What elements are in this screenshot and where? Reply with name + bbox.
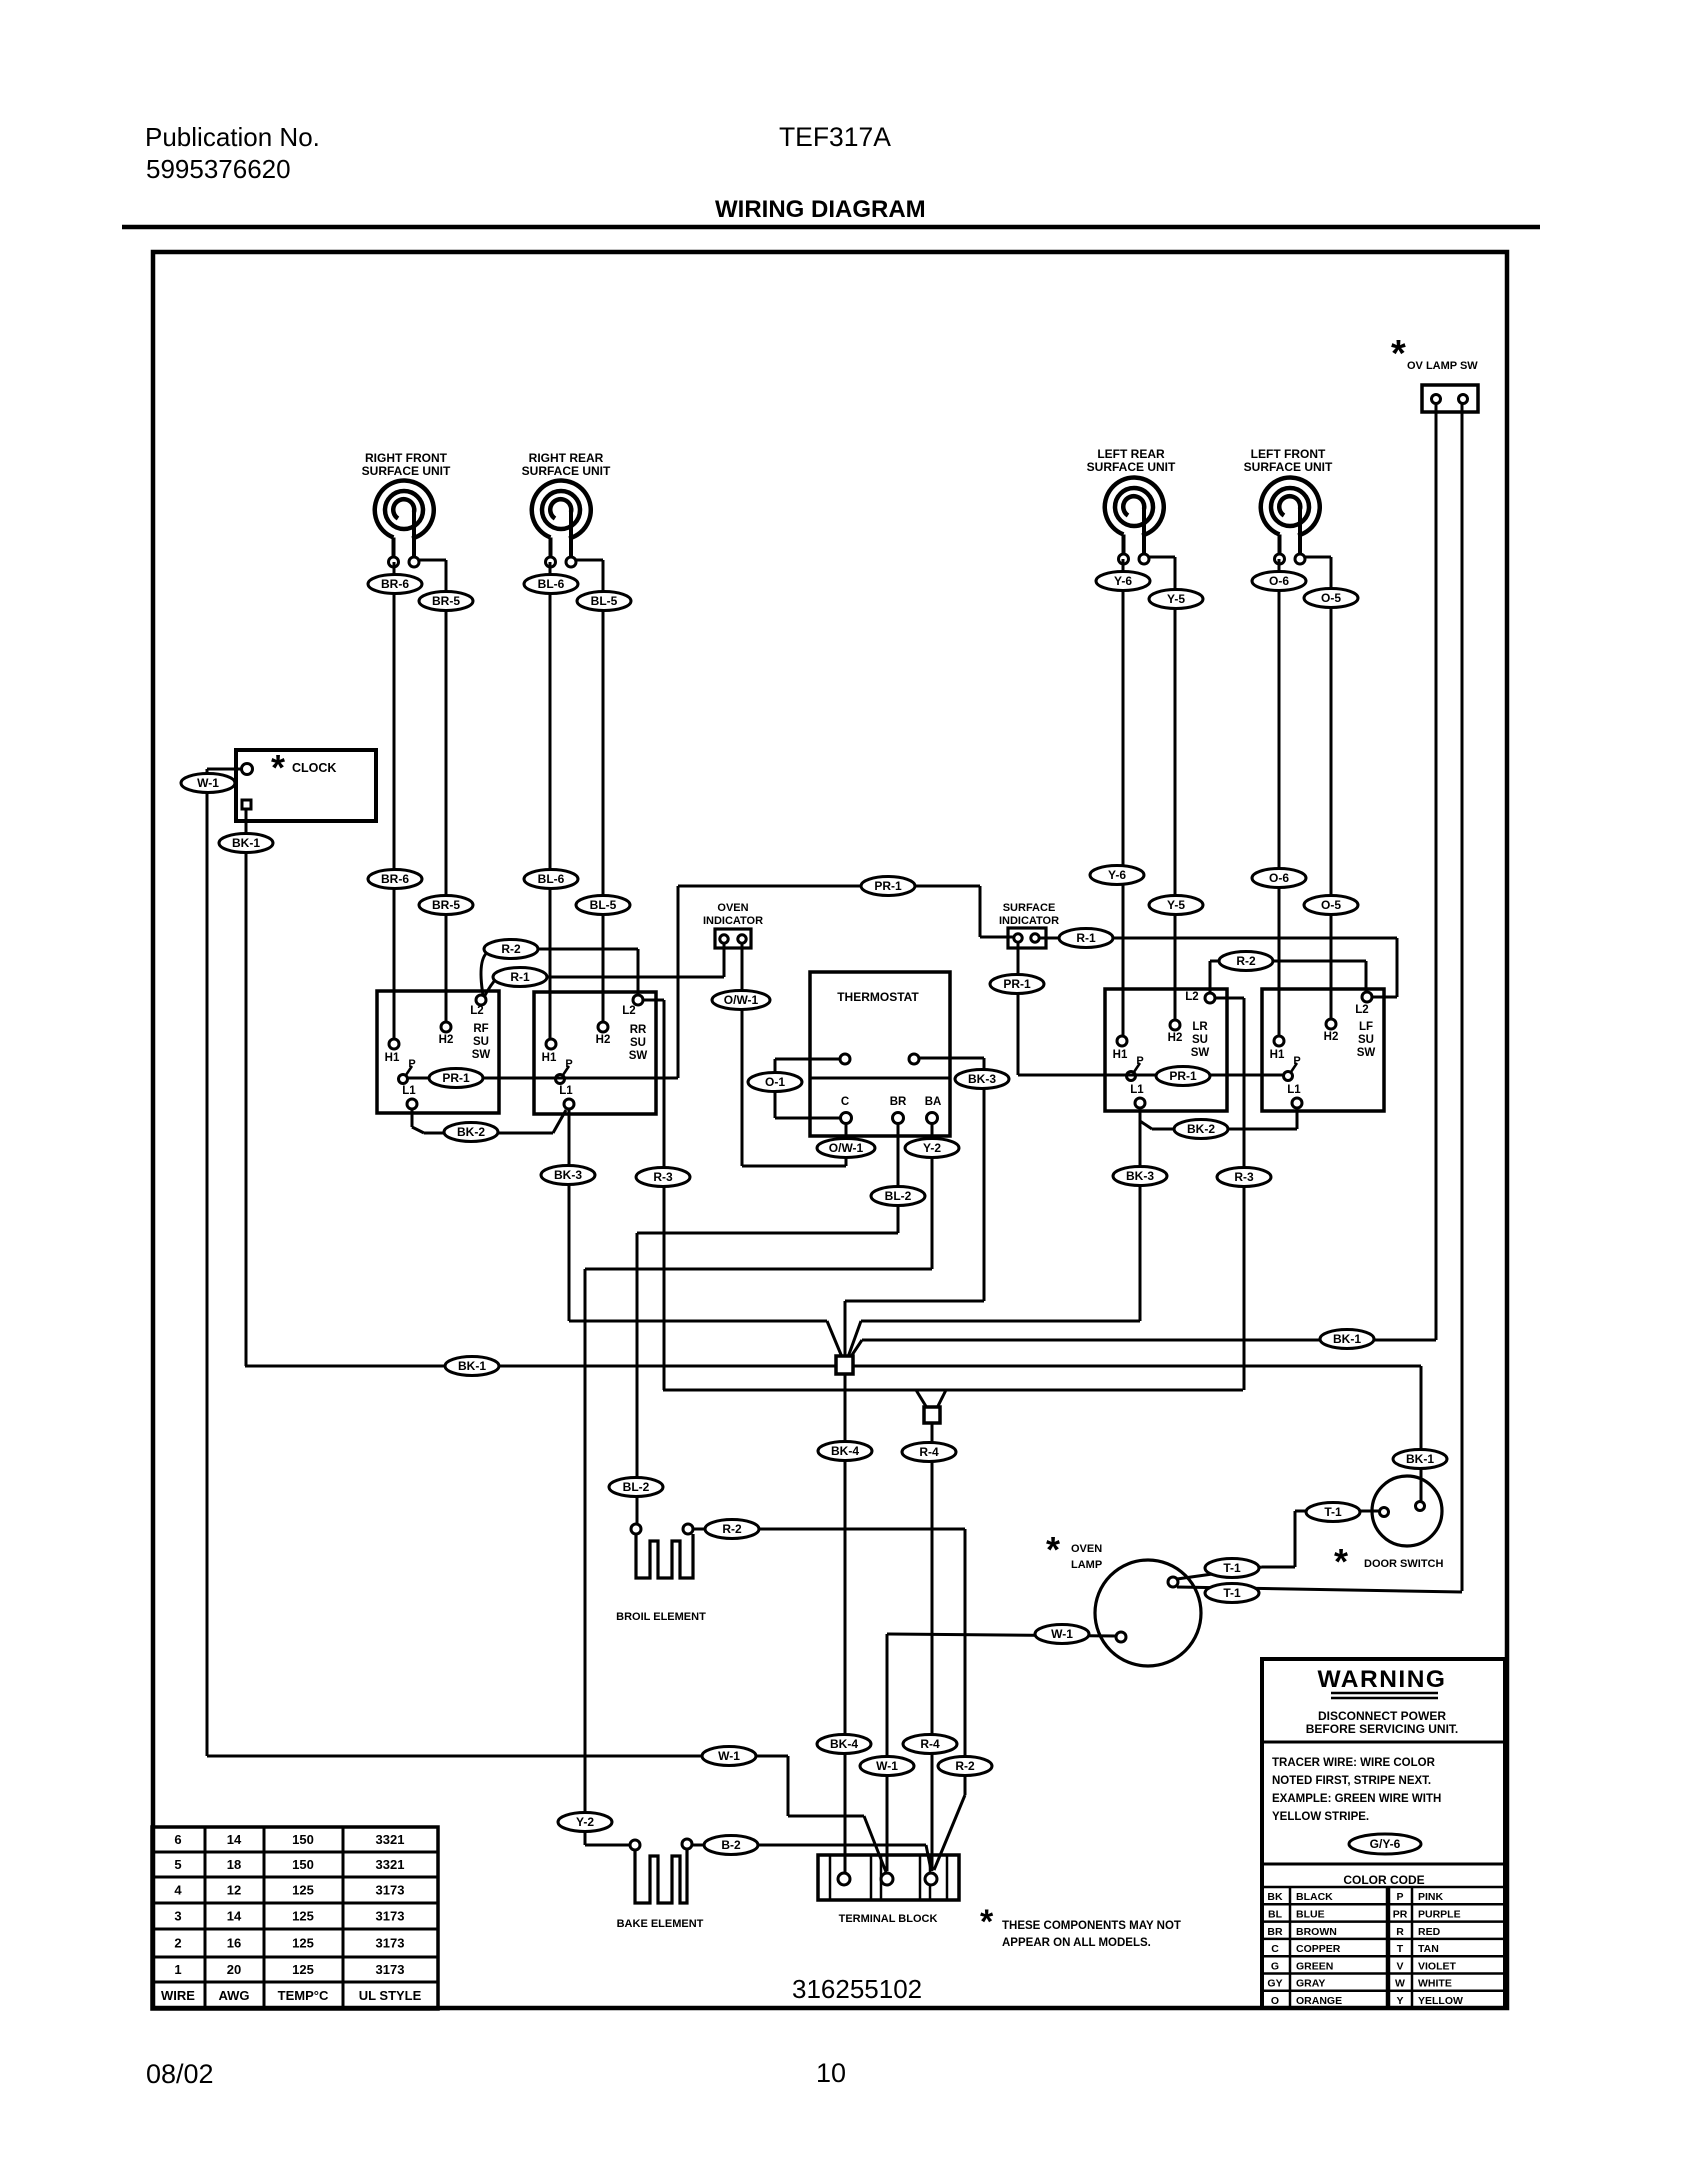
svg-text:BR-6: BR-6 (381, 577, 409, 591)
wire label BL-6 (524, 575, 578, 594)
wire label BL-5 (576, 896, 630, 915)
svg-text:BL-2: BL-2 (623, 1480, 650, 1494)
wire W-1 vertical (206, 769, 209, 1756)
wire label BR-5 (419, 592, 473, 611)
svg-text:H2: H2 (1168, 1032, 1183, 1044)
svg-text:C: C (1271, 1943, 1279, 1955)
svg-text:5: 5 (174, 1857, 181, 1872)
svg-text:R-2: R-2 (955, 1759, 975, 1773)
svg-text:COLOR CODE: COLOR CODE (1343, 1873, 1424, 1887)
left rear surface unit terminal 2 (1139, 554, 1149, 564)
svg-text:BK-4: BK-4 (830, 1737, 858, 1751)
wire W-1 diagonal to terminal block (864, 1816, 886, 1872)
RRSU L1 terminal (564, 1099, 574, 1109)
svg-text:2: 2 (174, 1936, 181, 1951)
wire label W-1 (860, 1757, 914, 1776)
svg-text:3: 3 (174, 1909, 181, 1924)
svg-text:WHITE: WHITE (1418, 1978, 1452, 1990)
clock terminal 2 (242, 800, 251, 809)
wire R-2 broil to terminal block (694, 1528, 965, 1531)
wire T-1 lamp to ov lamp sw (1177, 1587, 1462, 1592)
svg-text:B-2: B-2 (721, 1838, 741, 1852)
wire R-3 vertical right (1243, 998, 1246, 1390)
wire label BR-6 (368, 870, 422, 889)
wire label R-4 (902, 1443, 956, 1462)
svg-text:12: 12 (227, 1883, 241, 1898)
svg-text:BLUE: BLUE (1296, 1909, 1325, 1921)
svg-text:3173: 3173 (376, 1936, 405, 1951)
LFSU H1 terminal (1274, 1036, 1284, 1046)
svg-text:SW: SW (1191, 1047, 1210, 1059)
wire label BR-6 (368, 575, 422, 594)
svg-text:BL-2: BL-2 (885, 1189, 912, 1203)
wire R-1 surface indicator to LF L2 (1040, 937, 1397, 940)
wire label BK-4 (818, 1442, 872, 1461)
terminal block terminal 3 (925, 1873, 937, 1885)
wire label PR-1 (1156, 1067, 1210, 1086)
svg-text:R-2: R-2 (722, 1522, 742, 1536)
svg-text:GY: GY (1267, 1978, 1282, 1990)
wire label T-1 (1205, 1584, 1259, 1603)
wire label BK-3 (955, 1070, 1009, 1089)
svg-text:R: R (1396, 1926, 1404, 1938)
wire label R-2 (1219, 952, 1273, 971)
terminal block terminal 1 (838, 1873, 850, 1885)
svg-text:P: P (1396, 1891, 1403, 1903)
wire label W-1 (181, 774, 235, 793)
svg-text:H1: H1 (385, 1052, 400, 1064)
svg-text:BK-3: BK-3 (968, 1072, 996, 1086)
wire BL-2 down to broil element (636, 1233, 639, 1524)
wire BK-2 LR L1 to LF L1 (1152, 1128, 1297, 1131)
svg-text:*: * (1391, 333, 1406, 375)
svg-text:CLOCK: CLOCK (292, 761, 336, 775)
wire R-3 from LR L2 (1216, 997, 1244, 1000)
thermostat terminal BA (927, 1113, 938, 1124)
svg-text:O-6: O-6 (1269, 871, 1289, 885)
svg-text:L2: L2 (1185, 991, 1198, 1003)
wire label BL-6 (524, 870, 578, 889)
LRSU H1 terminal (1117, 1036, 1127, 1046)
wire Y-5 jog (1149, 556, 1175, 559)
RFSU H1 terminal (389, 1039, 399, 1049)
svg-text:316255102: 316255102 (792, 1974, 922, 2004)
wire O/W-1 horizontal (742, 1165, 846, 1168)
svg-text:3321: 3321 (376, 1832, 405, 1847)
bake element (635, 1849, 687, 1903)
wire label R-1 (493, 968, 547, 987)
svg-text:SU: SU (1358, 1034, 1374, 1046)
svg-text:G: G (1271, 1960, 1279, 1972)
right front surface unit terminal 1 (389, 557, 399, 567)
wire Y-2 to bake terminal (585, 1844, 629, 1847)
svg-text:SURFACE UNIT: SURFACE UNIT (1244, 460, 1333, 474)
svg-text:V: V (1396, 1960, 1403, 1972)
wire R-2 LR L2 to LF L2 (1210, 960, 1366, 963)
svg-text:OVEN: OVEN (1071, 1543, 1102, 1555)
wire label W-1 (702, 1747, 756, 1766)
wire label W-1 (1035, 1625, 1089, 1644)
svg-text:TERMINAL BLOCK: TERMINAL BLOCK (839, 1913, 938, 1925)
svg-text:150: 150 (292, 1857, 314, 1872)
wire R-3 from RR L2 (643, 999, 664, 1002)
wire label BK-3 (541, 1166, 595, 1185)
wire BK-2 LR L1 (1139, 1108, 1142, 1121)
thermostat top-right terminal (909, 1054, 919, 1064)
svg-text:16: 16 (227, 1936, 241, 1951)
wire label Y-2 (558, 1813, 612, 1832)
svg-text:L2: L2 (622, 1005, 635, 1017)
svg-text:O: O (1271, 1995, 1279, 2007)
door switch (1372, 1476, 1442, 1546)
svg-text:*: * (980, 1903, 994, 1941)
svg-text:SU: SU (473, 1036, 489, 1048)
warning divider (1262, 1741, 1505, 1744)
wire label R-3 (1217, 1168, 1271, 1187)
svg-text:BK-1: BK-1 (232, 836, 260, 850)
clock terminal 1 (242, 764, 253, 775)
wire diagonal into junction 2 (937, 1390, 946, 1408)
wire BK-1 diagonal into junction (850, 1340, 862, 1358)
wire BK-1 down to door switch (1420, 1366, 1423, 1501)
wire label T-1 (1205, 1559, 1259, 1578)
wire O-6 left front unit to H1 (1278, 559, 1281, 1036)
example wire label G/Y-6 (1349, 1834, 1421, 1854)
svg-text:BK-1: BK-1 (1406, 1452, 1434, 1466)
wire O-5 left front unit to H2 (1330, 557, 1333, 1019)
oven indicator box (715, 929, 751, 948)
right rear surface unit terminal 1 (546, 557, 556, 567)
wire PR-1 horizontal (678, 885, 980, 888)
svg-text:R-2: R-2 (501, 942, 521, 956)
wire BK-3 diagonal into junction (827, 1321, 842, 1357)
wire R-2 diagonal to terminal (934, 1795, 965, 1870)
svg-text:W-1: W-1 (1051, 1627, 1073, 1641)
wire BL-5 jog (576, 559, 603, 562)
left rear surface unit terminal 1 (1119, 554, 1129, 564)
LRSU P terminal (1127, 1072, 1136, 1081)
svg-text:BR: BR (890, 1096, 907, 1108)
wire Y-2 horizontal (585, 1268, 932, 1271)
wire BK-3 vertical (983, 1058, 986, 1301)
svg-text:LEFT FRONT: LEFT FRONT (1251, 447, 1326, 461)
wire label BK-1 (1393, 1450, 1447, 1469)
svg-text:SW: SW (629, 1050, 648, 1062)
wire label BK-3 (1113, 1167, 1167, 1186)
wire PR-1 P line left pair (408, 1077, 678, 1080)
surface unit coil left front surface unit (1261, 478, 1320, 554)
wire BK-3 thermostat right (919, 1057, 984, 1060)
thermostat terminal BR (893, 1113, 904, 1124)
thermostat terminal C (841, 1113, 852, 1124)
left front surface unit terminal 2 (1295, 554, 1305, 564)
svg-text:OVEN: OVEN (717, 902, 748, 914)
terminal block (818, 1855, 959, 1900)
junction node square 2 (924, 1407, 940, 1423)
wire Y-2 from BA terminal (931, 1124, 934, 1269)
svg-text:BL-5: BL-5 (590, 898, 617, 912)
svg-text:SURFACE UNIT: SURFACE UNIT (362, 464, 451, 478)
svg-text:APPEAR ON ALL MODELS.: APPEAR ON ALL MODELS. (1002, 1937, 1151, 1949)
svg-text:L1: L1 (402, 1085, 416, 1097)
svg-text:BK-4: BK-4 (831, 1444, 859, 1458)
RFSU H2 terminal (441, 1022, 451, 1032)
wire label O/W-1 (712, 991, 770, 1010)
svg-text:R-3: R-3 (653, 1170, 673, 1184)
svg-text:W: W (1395, 1978, 1405, 1990)
RFSU P terminal (399, 1075, 408, 1084)
svg-text:BL-5: BL-5 (591, 594, 618, 608)
wire O/W-1 up to C (845, 1124, 848, 1166)
svg-text:SURFACE: SURFACE (1003, 902, 1056, 914)
svg-text:4: 4 (174, 1883, 182, 1898)
wire R-4 junction to terminal block (931, 1423, 934, 1871)
svg-text:THESE COMPONENTS MAY NOT: THESE COMPONENTS MAY NOT (1002, 1920, 1181, 1932)
svg-text:ORANGE: ORANGE (1296, 1995, 1342, 2007)
wire W-1 from clock (207, 768, 242, 771)
svg-text:SW: SW (1357, 1047, 1376, 1059)
wire label BL-2 (609, 1478, 663, 1497)
svg-text:LF: LF (1359, 1021, 1373, 1033)
svg-text:W-1: W-1 (718, 1749, 740, 1763)
svg-text:Y-2: Y-2 (923, 1141, 941, 1155)
broil element (636, 1534, 693, 1578)
switch box LRSU SU SW (1105, 989, 1227, 1111)
svg-text:Publication No.: Publication No. (145, 122, 320, 152)
svg-text:H2: H2 (596, 1034, 611, 1046)
wire label Y-5 (1149, 896, 1203, 915)
wire BK-1 ov lamp sw vertical (1435, 404, 1438, 1340)
svg-text:3173: 3173 (376, 1962, 405, 1977)
svg-text:UL STYLE: UL STYLE (359, 1988, 422, 2003)
wire label R-2 (705, 1520, 759, 1539)
svg-text:Y-2: Y-2 (576, 1815, 594, 1829)
svg-text:3173: 3173 (376, 1883, 405, 1898)
svg-text:W-1: W-1 (197, 776, 219, 790)
wire BK-3 to junction (569, 1320, 827, 1323)
wire B-2 bake to terminal block (693, 1844, 926, 1847)
svg-text:BROWN: BROWN (1296, 1926, 1337, 1938)
wire label R-1 (1059, 929, 1113, 948)
wire PR-1 down to P line (677, 886, 680, 1078)
wire Y-2 down to bake element (584, 1269, 587, 1845)
svg-text:T-1: T-1 (1223, 1586, 1241, 1600)
bake element right terminal (682, 1839, 692, 1849)
svg-text:L2: L2 (470, 1005, 483, 1017)
svg-text:O-5: O-5 (1321, 591, 1341, 605)
svg-text:L2: L2 (1355, 1004, 1368, 1016)
svg-text:*: * (1334, 1541, 1348, 1582)
svg-text:L1: L1 (559, 1085, 573, 1097)
svg-text:1: 1 (174, 1962, 181, 1977)
svg-text:BR-6: BR-6 (381, 872, 409, 886)
broil element left terminal (631, 1524, 641, 1534)
svg-text:WIRE: WIRE (161, 1988, 195, 2003)
wire BK-3 diagonal into junction (848, 1321, 861, 1357)
svg-text:COPPER: COPPER (1296, 1943, 1341, 1955)
door switch left terminal (1380, 1508, 1389, 1517)
svg-text:R-4: R-4 (919, 1445, 939, 1459)
wire PR-1 P line right pair (1018, 1074, 1284, 1077)
wire PR-1 below surface indicator (1017, 943, 1020, 1075)
oven indicator terminal 1 (720, 935, 728, 943)
wire Y-6 left rear unit to H1 (1122, 559, 1125, 1036)
wire BK-3 to junction (861, 1320, 1140, 1323)
wire O-5 jog (1305, 556, 1331, 559)
svg-text:INDICATOR: INDICATOR (999, 915, 1059, 927)
svg-text:T-1: T-1 (1324, 1505, 1342, 1519)
wire label BK-4 (817, 1735, 871, 1754)
svg-text:SURFACE UNIT: SURFACE UNIT (522, 464, 611, 478)
svg-text:BL: BL (1268, 1909, 1283, 1921)
svg-text:BA: BA (925, 1096, 942, 1108)
wire R-2 RF L2 to RR L2 (538, 948, 638, 951)
LFSU P terminal (1284, 1072, 1293, 1081)
svg-text:10: 10 (816, 2058, 846, 2088)
svg-text:WIRING DIAGRAM: WIRING DIAGRAM (715, 196, 926, 223)
wire BK-2 RF L1 (411, 1109, 414, 1127)
svg-text:R-2: R-2 (1236, 954, 1256, 968)
svg-text:6: 6 (174, 1832, 181, 1847)
svg-text:RIGHT FRONT: RIGHT FRONT (365, 451, 448, 465)
wire BK-1 long horizontal left (245, 1365, 836, 1368)
ov lamp sw terminal 1 (1432, 395, 1441, 404)
surface indicator terminal 2 (1031, 934, 1039, 942)
wire BK-3 to junction top (845, 1300, 984, 1303)
wire R-1 to oven indicator (546, 976, 724, 979)
wire BL-5 right rear unit to H2 (602, 560, 605, 1022)
wire R-3 vertical left (663, 1000, 666, 1390)
wire BL-2 from BR terminal (897, 1124, 900, 1233)
svg-text:125: 125 (292, 1936, 314, 1951)
svg-text:BROIL ELEMENT: BROIL ELEMENT (616, 1611, 706, 1623)
wire label O-6 (1252, 572, 1306, 591)
wire BK-1 to ov lamp sw (862, 1339, 1436, 1342)
svg-text:BEFORE SERVICING UNIT.: BEFORE SERVICING UNIT. (1306, 1722, 1458, 1736)
switch box RFSU SU SW (377, 991, 499, 1113)
svg-text:TEF317A: TEF317A (779, 122, 891, 152)
wire label BR-5 (419, 896, 473, 915)
svg-text:BR-5: BR-5 (432, 594, 460, 608)
svg-text:P: P (565, 1058, 572, 1070)
svg-text:BK-2: BK-2 (457, 1125, 485, 1139)
ov lamp sw terminal 2 (1459, 395, 1468, 404)
RFSU L2 terminal (476, 995, 486, 1005)
RRSU P terminal (556, 1075, 565, 1084)
svg-text:O-6: O-6 (1269, 574, 1289, 588)
svg-text:RR: RR (630, 1024, 647, 1036)
wire PR-1 jog to surface indicator (980, 936, 1014, 939)
warning box (1262, 1659, 1505, 2008)
oven indicator terminal 2 (738, 935, 746, 943)
LFSU L2 terminal (1362, 992, 1372, 1002)
svg-text:*: * (271, 747, 285, 788)
LRSU H2 terminal (1170, 1020, 1180, 1030)
wire label BK-1 (445, 1357, 499, 1376)
color code divider (1262, 1863, 1505, 1866)
surface unit coil right rear surface unit (532, 481, 591, 557)
thermostat divider (810, 1077, 950, 1080)
wire BR-5 right front unit to H2 (445, 560, 448, 1022)
clock box (236, 750, 376, 821)
svg-text:LR: LR (1192, 1021, 1208, 1033)
wire label Y-5 (1149, 590, 1203, 609)
svg-text:PR-1: PR-1 (442, 1071, 470, 1085)
svg-text:*: * (1046, 1529, 1060, 1570)
wire BK-3 RR L1 down (568, 1109, 571, 1321)
wire label BL-2 (871, 1187, 925, 1206)
wire label O-5 (1304, 589, 1358, 608)
svg-text:TEMP°C: TEMP°C (278, 1988, 329, 2003)
RFSU L1 terminal (407, 1099, 417, 1109)
wire O-1 vertical (774, 1059, 777, 1118)
wire BK-1 from clock vertical (245, 809, 248, 1366)
oven lamp terminal 2 (1116, 1632, 1126, 1642)
svg-text:G/Y-6: G/Y-6 (1370, 1837, 1401, 1851)
svg-text:WARNING: WARNING (1318, 1666, 1447, 1693)
svg-text:PURPLE: PURPLE (1418, 1909, 1461, 1921)
wire R-2 LR L2 up (1209, 961, 1212, 993)
svg-text:PINK: PINK (1418, 1891, 1444, 1903)
svg-text:SW: SW (472, 1049, 491, 1061)
wire BL-6 right rear unit to H1 (549, 562, 552, 1039)
svg-text:Y: Y (1396, 1995, 1403, 2007)
wire label BK-2 (444, 1123, 498, 1142)
wire label BK-1 (1320, 1330, 1374, 1349)
svg-text:BK-3: BK-3 (554, 1168, 582, 1182)
wire label BL-5 (577, 592, 631, 611)
wire label R-3 (636, 1168, 690, 1187)
door switch right terminal (1416, 1502, 1425, 1511)
svg-text:H1: H1 (1270, 1049, 1285, 1061)
surface indicator terminal 1 (1014, 934, 1022, 942)
wire R-2 curve from RF L2 (481, 951, 489, 995)
wire W-1 oven lamp to terminal block (887, 1634, 1116, 1636)
surface indicator box (1008, 928, 1046, 948)
svg-text:BK-2: BK-2 (1187, 1122, 1215, 1136)
LRSU L1 terminal (1135, 1098, 1145, 1108)
wire Y-5 left rear unit to H2 (1174, 557, 1177, 1020)
wire label R-4 (903, 1735, 957, 1754)
switch box RRSU SU SW (534, 992, 656, 1114)
wire BR-5 jog (419, 559, 446, 562)
header rule (122, 225, 1540, 230)
left front surface unit terminal 1 (1275, 554, 1285, 564)
RRSU H1 terminal (546, 1039, 556, 1049)
svg-text:SURFACE UNIT: SURFACE UNIT (1087, 460, 1176, 474)
wire O/W-1 oven indicator down (741, 944, 744, 1166)
svg-text:Y-5: Y-5 (1167, 592, 1185, 606)
wire label O-1 (748, 1073, 802, 1092)
wire label BK-1 (219, 834, 273, 853)
svg-text:SU: SU (1192, 1034, 1208, 1046)
svg-text:YELLOW STRIPE.: YELLOW STRIPE. (1272, 1811, 1369, 1823)
svg-text:P: P (408, 1058, 415, 1070)
RRSU L2 terminal (633, 995, 643, 1005)
svg-text:125: 125 (292, 1883, 314, 1898)
main border frame (153, 252, 1507, 2008)
svg-text:T: T (1397, 1943, 1404, 1955)
svg-text:H1: H1 (542, 1052, 557, 1064)
svg-text:BK: BK (1267, 1891, 1283, 1903)
LRSU L2 terminal (1205, 993, 1215, 1003)
ov lamp switch box (1422, 385, 1478, 412)
svg-text:3321: 3321 (376, 1857, 405, 1872)
svg-text:H1: H1 (1113, 1049, 1128, 1061)
wire BR-6 right front unit to H1 (393, 562, 396, 1039)
svg-text:INDICATOR: INDICATOR (703, 915, 763, 927)
svg-text:H2: H2 (439, 1034, 454, 1046)
